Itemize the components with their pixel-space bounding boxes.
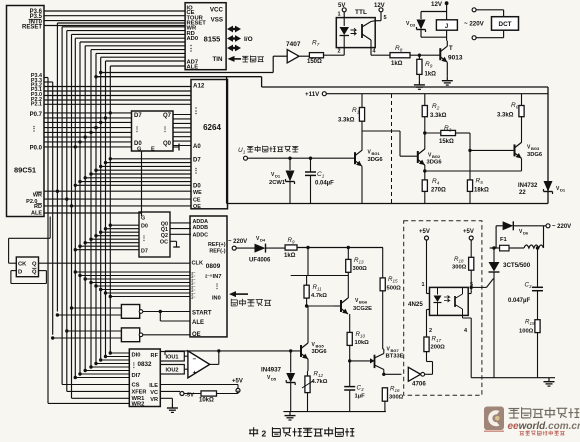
DAC output IOU2 box: [160, 365, 184, 375]
resistor R13 300: [346, 246, 367, 298]
svg-text:+: +: [193, 369, 197, 376]
transistor VBG5 3DG6: [301, 304, 327, 371]
svg-text:3DG6: 3DG6: [527, 152, 543, 158]
svg-text:3.3kΩ: 3.3kΩ: [338, 118, 355, 124]
wire UJT B1 node: [382, 373, 401, 376]
dashed stage separator: [391, 94, 393, 204]
zener IN4732 VD1: [518, 94, 566, 196]
IC address latch 373: [132, 111, 174, 151]
svg-text:ADDA: ADDA: [193, 219, 209, 225]
wire gate2 output to OE: [143, 334, 190, 336]
svg-text:10kΩ: 10kΩ: [355, 340, 370, 346]
svg-text:REF(+): REF(+): [208, 242, 226, 248]
wire 89C51 to 8155 top lines: [44, 11, 185, 26]
trigger ground rail: [283, 412, 386, 420]
gate AND for ADC OE: [121, 328, 139, 342]
eeworld watermark logo: [484, 407, 580, 436]
svg-text:300Ω: 300Ω: [389, 395, 404, 401]
wire opto pin4 to R8: [371, 48, 390, 56]
svg-text:+5V: +5V: [419, 229, 430, 235]
+5V terminal left: [419, 229, 430, 294]
wire 4N25 pin2 to R17: [427, 310, 438, 338]
svg-text:D0: D0: [141, 224, 148, 230]
wire gate1 output to START and ALE: [143, 310, 190, 321]
wire bus vertical lines: [48, 23, 110, 403]
svg-text:BG5: BG5: [316, 343, 325, 348]
diode VD3: [406, 12, 447, 38]
svg-text:IN4937: IN4937: [261, 367, 282, 374]
diode VD6 line to AC: [496, 221, 550, 235]
svg-text:⋮: ⋮: [162, 125, 169, 133]
wire P0 data lines to latch: [44, 111, 132, 148]
svg-text:CS: CS: [132, 383, 140, 389]
svg-text:VR: VR: [150, 397, 158, 403]
resistor R7 150ohm: [299, 40, 324, 66]
svg-text:BG1: BG1: [372, 151, 381, 156]
latch enable stub: [173, 144, 179, 151]
wire ALE line to latch gate: [44, 151, 142, 216]
svg-text:Q: Q: [32, 262, 37, 268]
svg-text:DCT: DCT: [499, 21, 512, 28]
wire 4N25 pin5 to SCR gate: [468, 279, 493, 294]
svg-text:300Ω: 300Ω: [353, 266, 368, 272]
transistor VBG2 3DG6: [418, 149, 443, 176]
svg-text:2: 2: [262, 429, 267, 439]
latch OC stub: [170, 241, 180, 247]
transistor VBG3 3DG6: [423, 142, 543, 172]
svg-text:0.047µF: 0.047µF: [508, 298, 530, 304]
wire bus to ADC latch inputs: [74, 224, 139, 252]
svg-text:3.3kΩ: 3.3kΩ: [497, 113, 514, 119]
frequency divider input arrow: [228, 56, 264, 63]
svg-text:D4: D4: [260, 237, 266, 242]
svg-text:22: 22: [519, 190, 526, 196]
svg-text:1: 1: [338, 12, 341, 18]
svg-text:1kΩ: 1kΩ: [391, 61, 403, 67]
8155 I/O bus arrows: [227, 26, 253, 52]
svg-text:~ 220V: ~ 220V: [228, 239, 247, 245]
svg-text:4.7kΩ: 4.7kΩ: [311, 293, 327, 299]
svg-text:3DG6: 3DG6: [427, 160, 443, 166]
svg-text:+11V: +11V: [305, 91, 320, 98]
svg-text:DI0: DI0: [132, 353, 141, 359]
svg-text:2⁻⁸: 2⁻⁸: [205, 274, 212, 279]
wire VR to ground: [160, 398, 178, 412]
svg-text:D7: D7: [134, 113, 142, 119]
wire op-amp output and feedback: [165, 349, 301, 364]
svg-text:0832: 0832: [137, 361, 152, 368]
svg-text:ILE: ILE: [149, 383, 158, 389]
transistor VBG1 3DG6: [355, 150, 383, 204]
svg-text:TIN: TIN: [213, 56, 223, 63]
svg-text:1µF: 1µF: [355, 394, 366, 400]
gate AND for ADC start: [121, 305, 139, 319]
svg-text:ADDB: ADDB: [193, 225, 209, 231]
op-amp U2: [188, 351, 210, 378]
svg-text:270Ω: 270Ω: [431, 188, 446, 194]
svg-text:CK: CK: [18, 262, 27, 268]
svg-text:+5V: +5V: [232, 379, 243, 385]
svg-text:+5V: +5V: [463, 229, 474, 235]
svg-text:~ 220V: ~ 220V: [464, 21, 485, 28]
svg-text:XFER: XFER: [132, 389, 147, 395]
wire bus to 8155 address/data lines: [57, 23, 185, 66]
wire flipflop clock input: [9, 217, 51, 264]
fuse F1 and inductor line: [490, 226, 544, 251]
svg-text:6264: 6264: [203, 123, 221, 132]
svg-text:WR2: WR2: [132, 402, 145, 408]
svg-text:ALE: ALE: [31, 211, 42, 217]
svg-text:OC: OC: [160, 240, 168, 246]
wire bus to ADC analog inputs: [74, 270, 190, 298]
zener VD1 2CW1: [269, 157, 295, 204]
svg-text:OE: OE: [192, 332, 201, 338]
wire VC with -5V and 10k pot: [160, 390, 238, 403]
svg-text:I/O: I/O: [244, 36, 253, 43]
svg-text:100Ω: 100Ω: [519, 329, 534, 335]
svg-text:P2.1: P2.1: [31, 102, 42, 108]
wire latch outputs to 6264 address: [173, 115, 191, 146]
+5V terminal right: [463, 229, 474, 257]
IC 89C51 microcontroller: [7, 6, 45, 217]
svg-text:89C51: 89C51: [14, 166, 36, 175]
svg-text:BG3: BG3: [531, 146, 540, 151]
svg-text:ALE: ALE: [187, 65, 199, 71]
svg-text:F1: F1: [500, 237, 508, 243]
svg-text:WE: WE: [193, 190, 202, 196]
wire ILE to +5V: [160, 379, 243, 393]
resistor R6: [497, 94, 524, 143]
wire gate2 inputs: [51, 329, 121, 339]
svg-text:1: 1: [422, 282, 425, 288]
svg-text:T: T: [449, 46, 453, 52]
resistor R8 1k: [390, 45, 440, 67]
svg-text:IN7: IN7: [213, 274, 222, 280]
svg-text:15kΩ: 15kΩ: [439, 139, 454, 145]
svg-text:CE: CE: [193, 198, 201, 204]
svg-text:3CT5/500: 3CT5/500: [503, 262, 531, 269]
svg-text:BG7: BG7: [391, 348, 400, 353]
svg-text:A0: A0: [193, 144, 201, 150]
svg-text:⋮: ⋮: [141, 235, 147, 242]
amplifier section box: [94, 75, 548, 204]
svg-text:18kΩ: 18kΩ: [474, 188, 489, 194]
IC 0832 DAC: [129, 349, 160, 407]
svg-text:⋮: ⋮: [214, 282, 221, 290]
svg-text:10kΩ: 10kΩ: [199, 398, 214, 404]
resistor R1: [338, 94, 365, 151]
AC 220V rectifier input terminal: [228, 239, 255, 250]
svg-text:⋮: ⋮: [187, 44, 195, 53]
resistor R19 100: [519, 319, 540, 378]
svg-text:3CG2E: 3CG2E: [353, 306, 372, 312]
IC 6264 RAM: [191, 80, 228, 209]
svg-text:IOU1: IOU1: [165, 355, 178, 361]
svg-text:D1: D1: [560, 187, 566, 192]
svg-text:REF(-): REF(-): [209, 248, 225, 254]
svg-text:⋮: ⋮: [192, 106, 200, 115]
svg-text:200Ω: 200Ω: [431, 345, 446, 351]
IC 0809 ADC: [190, 216, 227, 337]
svg-text:E: E: [151, 147, 155, 153]
resistor R3: [423, 125, 470, 150]
svg-text:Q: Q: [32, 270, 37, 276]
thyristor 3CT5/500: [489, 246, 531, 377]
svg-text:9013: 9013: [448, 55, 463, 62]
wire 7407 input: [273, 55, 287, 57]
svg-text:3DG6: 3DG6: [368, 157, 384, 163]
12V terminal opto: [374, 3, 385, 21]
svg-text:G: G: [137, 147, 141, 153]
svg-text:8155: 8155: [204, 35, 221, 44]
svg-text:150Ω: 150Ω: [307, 59, 322, 65]
transistor VBG6 3CG2E: [307, 296, 373, 314]
IC 8155 I/O expander: [185, 3, 226, 70]
svg-text:P0.0: P0.0: [30, 146, 43, 152]
svg-text:OE: OE: [193, 204, 201, 210]
DAC output IOU1 box: [160, 352, 184, 362]
svg-text:DI7: DI7: [132, 373, 141, 379]
svg-text:5: 5: [384, 15, 387, 21]
wire VBG1 collector coupling: [362, 131, 418, 156]
wire gate1 inputs: [56, 306, 122, 316]
svg-text:eeworld.com.cn: eeworld.com.cn: [508, 421, 580, 432]
wire data lines to 6264: [74, 157, 191, 187]
svg-text:WR: WR: [33, 193, 42, 199]
IC D flip-flop divider: [16, 257, 38, 277]
diode VD4 UF4006: [249, 236, 285, 264]
capacitor C3 0.047uF: [508, 246, 543, 319]
resistor R15 500: [380, 248, 401, 350]
resistor R12 4.7k with arrow: [302, 371, 328, 412]
svg-text:IN4732: IN4732: [518, 183, 538, 189]
wire timer out to 7407: [99, 56, 273, 74]
svg-text:500Ω: 500Ω: [387, 286, 402, 292]
inverter 4706: [408, 367, 432, 387]
svg-text:ALE: ALE: [192, 320, 204, 326]
optocoupler 4N25: [430, 287, 469, 315]
resistor R4: [422, 176, 446, 204]
wire to VBG3 base: [468, 149, 514, 152]
svg-text:CLK: CLK: [192, 261, 204, 267]
+11V terminal and rail: [305, 91, 548, 98]
transistor T 9013: [440, 41, 463, 85]
wire IOU to op-amp inputs: [184, 356, 188, 369]
svg-text:RD: RD: [34, 204, 42, 210]
buffer 7407: [286, 41, 301, 63]
svg-text:VCC: VCC: [210, 7, 224, 14]
svg-text:0809: 0809: [206, 263, 221, 270]
resistor R16 300: [382, 374, 403, 411]
svg-text:BG6: BG6: [359, 299, 368, 304]
wire 4N25 pin4 to rail: [463, 315, 472, 377]
svg-text:1kΩ: 1kΩ: [284, 253, 296, 259]
svg-text:2: 2: [429, 328, 432, 334]
svg-text:VSS: VSS: [211, 17, 223, 24]
AC 220V terminal right: [552, 224, 571, 230]
svg-text:TTL: TTL: [355, 9, 367, 16]
pressure sensor arrow label: [229, 291, 271, 306]
wire flipflop D feedback loop: [11, 271, 47, 284]
resistor R9 1k to ground: [414, 54, 436, 90]
wire DAC control lines: [48, 385, 129, 404]
wire supply to R11 branch: [291, 246, 349, 276]
svg-text:D7: D7: [193, 158, 201, 164]
svg-text:⋮: ⋮: [134, 125, 141, 133]
wire R7 to opto pin2: [324, 48, 345, 56]
svg-text:D3: D3: [410, 22, 416, 27]
svg-text:ADDC: ADDC: [193, 233, 209, 239]
svg-text:IN0: IN0: [212, 296, 221, 302]
svg-text:1kΩ: 1kΩ: [425, 72, 437, 78]
svg-text:BT33E: BT33E: [386, 354, 404, 360]
wire P3 port stubs: [44, 78, 53, 83]
svg-text:RESET: RESET: [22, 25, 42, 31]
svg-text:AD0: AD0: [187, 36, 199, 42]
svg-text:⋮: ⋮: [31, 125, 38, 133]
svg-text:D0: D0: [193, 184, 201, 190]
svg-text:Q0: Q0: [163, 141, 172, 147]
svg-text:D6: D6: [523, 230, 529, 235]
resistor R2: [422, 94, 446, 150]
wire latch to ADC address lines: [170, 223, 191, 234]
resistor R10 10k: [347, 314, 369, 386]
relay J: [436, 20, 457, 30]
svg-text:2⁻: 2⁻: [191, 296, 195, 300]
svg-text:J: J: [445, 24, 448, 30]
svg-text:−: −: [193, 356, 197, 363]
svg-text:RF: RF: [151, 353, 159, 359]
resistor R11 4.7k: [304, 276, 327, 307]
capacitor C3 1uF: [344, 385, 365, 412]
svg-text:~ 220V: ~ 220V: [552, 224, 571, 230]
resistor R18 300: [452, 256, 474, 287]
DCT load box: [492, 17, 519, 31]
svg-text:Q2: Q2: [161, 233, 168, 239]
svg-text:2: 2: [338, 49, 341, 55]
svg-text:G: G: [141, 216, 145, 222]
svg-text:2CW1: 2CW1: [269, 180, 286, 186]
output ground rail: [471, 378, 555, 386]
optocoupler TTL: [336, 18, 375, 48]
5V terminal: [338, 3, 346, 18]
IC latch for ADC address: [139, 212, 170, 257]
dashed isolation box: [404, 221, 482, 395]
svg-text:UF4006: UF4006: [249, 258, 271, 264]
resistor R5: [467, 150, 489, 203]
wire control lines WR RD to 6264: [44, 190, 191, 208]
svg-text:D5: D5: [271, 376, 277, 381]
svg-text:4.7kΩ: 4.7kΩ: [312, 379, 328, 385]
svg-text:3DG6: 3DG6: [312, 349, 328, 355]
svg-text:BG2: BG2: [432, 154, 441, 159]
svg-text:IOU2: IOU2: [165, 368, 178, 374]
wire P2 address lines to 6264: [44, 87, 191, 105]
capacitor C1: [305, 157, 334, 204]
svg-text:VC: VC: [150, 390, 158, 396]
svg-text:3.3kΩ: 3.3kΩ: [430, 113, 447, 119]
counting sensor signal terminal: [238, 146, 355, 161]
svg-text:0.04µF: 0.04µF: [315, 181, 334, 187]
figure caption: [249, 427, 354, 438]
resistor R17 200: [424, 336, 445, 375]
svg-text:START: START: [192, 311, 212, 317]
svg-text:D1: D1: [275, 173, 281, 178]
svg-text:7407: 7407: [286, 41, 301, 48]
zener IN4937 VD5: [261, 349, 295, 411]
wire flipflop Q to ADC clock: [39, 262, 191, 264]
AC 220V terminals: [464, 8, 504, 40]
svg-text:P0.7: P0.7: [30, 112, 43, 118]
12V terminal relay: [431, 1, 449, 41]
svg-text:12V: 12V: [431, 1, 443, 8]
svg-text:D: D: [18, 270, 22, 276]
resistor R9b 1k: [284, 237, 383, 259]
wire bus to DAC data inputs: [74, 351, 130, 379]
svg-text:⋮: ⋮: [131, 362, 137, 369]
unijunction VBG7 BT33E: [348, 347, 404, 375]
svg-text:D7: D7: [141, 249, 148, 255]
svg-text:4706: 4706: [412, 381, 426, 388]
svg-text:⋮: ⋮: [193, 167, 200, 175]
svg-text:4N25: 4N25: [408, 301, 423, 308]
svg-text:300Ω: 300Ω: [452, 265, 467, 271]
svg-text:A12: A12: [193, 83, 205, 90]
svg-text:Q7: Q7: [163, 113, 172, 119]
